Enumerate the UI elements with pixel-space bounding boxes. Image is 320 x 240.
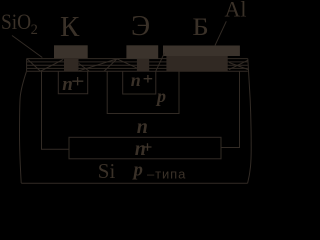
svg-text:–типа: –типа (147, 166, 186, 181)
svg-text:2: 2 (31, 22, 38, 38)
svg-text:К: К (60, 11, 80, 43)
svg-text:n: n (131, 70, 141, 90)
svg-text:n: n (135, 138, 146, 160)
svg-text:Si: Si (98, 159, 116, 183)
svg-text:p: p (155, 86, 166, 106)
svg-text:n: n (62, 74, 73, 95)
svg-text:n: n (137, 116, 148, 138)
svg-text:Al: Al (225, 0, 247, 22)
svg-text:Э: Э (131, 10, 150, 42)
svg-text:p: p (132, 160, 143, 180)
svg-text:SiO: SiO (1, 11, 31, 34)
svg-text:Б: Б (192, 13, 209, 41)
